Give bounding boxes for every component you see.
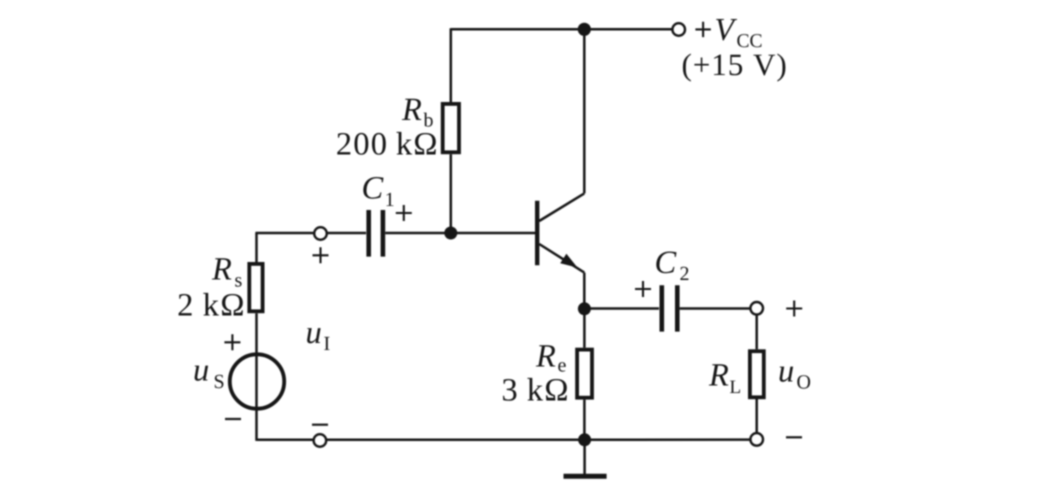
wire Re to bottom junction [583, 400, 586, 440]
label RL designator [709, 364, 729, 385]
label plus left of C2 [635, 281, 651, 297]
label uO subscript O [797, 375, 810, 388]
resistor Rb [443, 104, 459, 152]
node top rail junction [578, 23, 591, 36]
terminal input bottom [314, 434, 327, 447]
label plus right of output terminal [786, 301, 802, 317]
ground bar [564, 474, 607, 479]
label Rs subscript s [235, 277, 241, 287]
resistor RL [750, 351, 764, 397]
wire output terminal to RL [755, 315, 758, 350]
label plus above source [224, 334, 240, 350]
wire bottom rail middle segment [326, 439, 584, 442]
capacitor C1 [369, 210, 383, 257]
label uS symbol [195, 366, 209, 381]
node bottom junction [578, 433, 591, 446]
wire C2 to output terminal [680, 307, 751, 310]
capacitor C2 [662, 285, 678, 331]
terminal input top [314, 227, 327, 240]
label uI subscript I [324, 337, 329, 350]
label Re value 3 kOhm [503, 378, 567, 401]
label RL subscript L [730, 381, 740, 393]
transistor Q1 emitter diagonal [539, 244, 584, 273]
wire input row left corner to input terminal [255, 232, 314, 235]
wire top rail from Rb branch to Vcc terminal [451, 28, 672, 31]
terminal Vcc [672, 23, 685, 36]
ground stub [583, 440, 586, 475]
label plus right of C1 [396, 205, 412, 221]
wire collector vertical [583, 29, 586, 193]
wire Rb branch upper segment [450, 28, 453, 102]
label supply value (+15 V) [683, 54, 786, 82]
wire C1 to base junction [385, 232, 451, 235]
wire input left vertical upper [255, 233, 258, 262]
label uI symbol [307, 328, 321, 343]
wire RL to bottom terminal [755, 397, 758, 433]
label Re designator [536, 345, 556, 366]
resistor Rs [249, 264, 262, 311]
label C2 subscript 2 [680, 267, 688, 280]
label Vcc subscript CC [737, 34, 761, 47]
label C1 designator [363, 177, 383, 199]
label minus right of bottom terminal [786, 436, 802, 438]
wire input left vertical lower [255, 313, 258, 441]
transistor Q1 base bar [535, 201, 539, 265]
wire Rb branch lower segment [450, 154, 453, 233]
wire bottom rail right segment [585, 438, 751, 441]
terminal output bottom [750, 433, 763, 446]
label plus below input terminal [313, 247, 329, 263]
node emitter junction [578, 302, 591, 315]
label Rb value 200 kOhm [337, 132, 436, 155]
transistor Q1 emitter arrow [560, 254, 577, 268]
wire emitter node to C2 [584, 307, 659, 310]
label minus above bottom input terminal [312, 424, 328, 426]
label uS subscript S [215, 375, 224, 388]
terminal output top [750, 302, 763, 315]
wire base junction to transistor base [451, 232, 535, 235]
label Re subscript e [558, 362, 565, 372]
wire bottom rail left segment [257, 439, 314, 442]
label uO symbol [780, 367, 794, 382]
label Vcc symbol V [716, 19, 737, 41]
label Rs designator [212, 258, 232, 279]
node base junction [444, 227, 457, 240]
resistor Re [577, 350, 592, 398]
wire emitter vertical to emitter node [583, 273, 586, 309]
label C1 subscript 1 [387, 193, 394, 206]
wire emitter node to Re [583, 309, 586, 348]
label Rb subscript b [424, 113, 433, 127]
label minus below source [225, 418, 241, 420]
label Rs value 2 kOhm [179, 293, 243, 316]
transistor Q1 collector diagonal [539, 193, 584, 221]
label plus of +Vcc [695, 22, 710, 37]
wire input terminal to C1 [327, 232, 366, 235]
label Rb designator [402, 99, 422, 120]
source uS circle [230, 354, 284, 408]
label C2 designator [656, 252, 676, 274]
